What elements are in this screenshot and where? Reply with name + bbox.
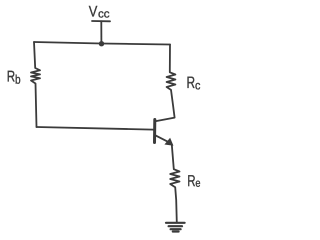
svg-text:R: R — [7, 69, 15, 86]
svg-text:e: e — [195, 178, 200, 190]
svg-text:R: R — [187, 74, 196, 92]
svg-text:b: b — [15, 73, 21, 87]
svg-text:V: V — [89, 4, 98, 21]
svg-text:R: R — [187, 173, 195, 190]
svg-text:cc: cc — [98, 9, 110, 21]
svg-text:c: c — [195, 78, 200, 92]
